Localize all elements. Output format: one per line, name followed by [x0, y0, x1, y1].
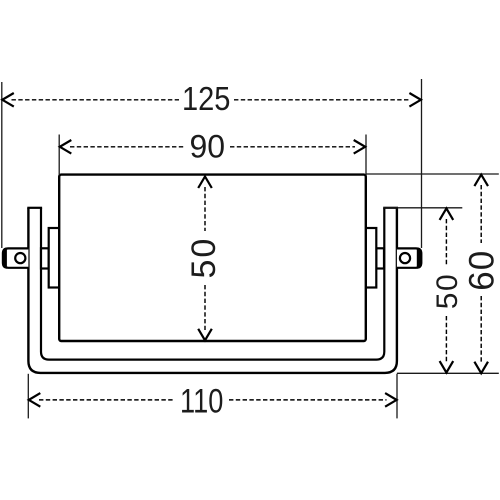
- extension line left for 125: [1, 82, 3, 248]
- rail inner contour: [41, 208, 384, 360]
- bearing hub right: [366, 228, 377, 288]
- dimension 125 dashed line: [12, 99, 180, 101]
- axle pin left: [3, 248, 29, 267]
- extension line left for 110: [27, 374, 29, 419]
- dimension 60 up arrow: [474, 175, 488, 187]
- axle pin left hole: [15, 253, 25, 263]
- dimension 50 roller down arrow: [198, 329, 212, 341]
- dimension 110 dashed line: [39, 399, 174, 401]
- svg-text:90: 90: [190, 129, 226, 165]
- dimension 50 roller dashed line: [204, 187, 206, 231]
- extension line right for 90: [365, 135, 367, 176]
- axle pin right hole: [400, 253, 410, 263]
- dimension 110 left arrow: [29, 393, 41, 407]
- rail left plate top: [27, 207, 42, 209]
- dimension 50 right up arrow: [440, 208, 454, 220]
- extension line right for 125: [421, 79, 423, 248]
- dimension 90 dashed line: [70, 146, 184, 148]
- dimension 50 right dashed line: [445, 219, 447, 266]
- extension line rail bottom to right edge: [397, 372, 499, 374]
- axle pin right: [397, 248, 421, 267]
- axle segment right: [376, 248, 384, 268]
- bearing hub left: [49, 228, 60, 288]
- axle segment left: [41, 248, 49, 268]
- extension line right for 110: [396, 374, 398, 419]
- dimension 50 roller up arrow: [198, 177, 212, 189]
- dimension 50 right down arrow: [440, 361, 454, 373]
- svg-text:60: 60: [463, 250, 500, 291]
- axle pin left end cap: [3, 248, 6, 267]
- svg-text:50: 50: [431, 273, 464, 309]
- axle pin right end cap: [418, 248, 422, 267]
- rail outer contour: [28, 208, 397, 373]
- rail right plate top: [383, 207, 398, 209]
- extension line left for 90: [58, 135, 60, 176]
- extension line rail plate top to right: [384, 207, 463, 209]
- dimension 60 down arrow: [474, 362, 488, 374]
- dimension 60 dashed line: [480, 185, 482, 243]
- svg-text:50: 50: [185, 237, 223, 279]
- dimension 110 right arrow: [385, 393, 397, 407]
- dimension 90 right arrow: [354, 140, 366, 154]
- extension line roller top to right edge: [366, 173, 499, 175]
- svg-text:125: 125: [182, 80, 230, 117]
- dimension 125 right arrow: [409, 93, 421, 107]
- dimension 125 left arrow: [2, 93, 14, 107]
- dimension 90 left arrow: [60, 140, 72, 154]
- svg-text:110: 110: [180, 382, 223, 421]
- roller body: [59, 175, 366, 341]
